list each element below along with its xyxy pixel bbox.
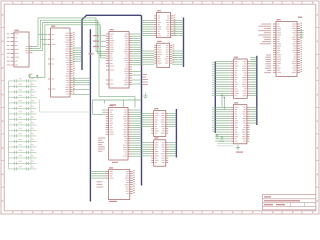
wire U10-U11 link A [221, 95, 223, 108]
IC U5 [106, 167, 135, 199]
vcc arrow 2 [36, 75, 38, 79]
wire vcc feed [30, 25, 45, 78]
wire U1 r1 [29, 34, 38, 46]
wire to U2 pin1 [38, 18, 47, 34]
IC U6 [154, 10, 176, 38]
wires U9 to bus B6 [168, 143, 176, 156]
wires U4 right to bus B2 [131, 110, 142, 156]
wires U3 to bus B2 [132, 34, 142, 84]
net label near bus [89, 53, 94, 54]
IC U9 [151, 137, 168, 166]
wires U2 to bus B1 [73, 48, 91, 94]
IC U8 [151, 108, 168, 137]
wire bus-link H1 [40, 19, 97, 21]
bus B1 (n-shaped data bus top) [82, 15, 142, 185]
resistor-diode array rows [9, 78, 37, 170]
wires bus B2 to U9 [142, 143, 152, 156]
faint wire U2 to bus [39, 100, 90, 113]
U11 bottom label [236, 152, 243, 153]
wires U5 left [90, 172, 106, 179]
wire bus-link V0 [96, 18, 106, 52]
bus B6 (right of U8/U9) [175, 109, 177, 158]
U4 top label [110, 104, 116, 105]
IC U1 [11, 30, 33, 67]
IC U2 [48, 26, 75, 97]
wire to U2 pin2 [40, 20, 47, 39]
ground below U7 [143, 93, 148, 99]
wire to U2 pin3 [43, 23, 48, 45]
wire bus-link V3 [101, 25, 107, 58]
power symbol below bus B4 [216, 134, 224, 142]
wires bus B4 to U11 [215, 107, 231, 141]
wire bus-link H2 [43, 22, 99, 24]
wires U11 to bus B5 [250, 107, 257, 123]
wire bus-link V1 [98, 20, 107, 53]
U5 left net labels [97, 181, 104, 187]
stub wires above U10 right [251, 57, 257, 64]
U4 lower-left net labels [98, 138, 105, 152]
IC U12 [273, 19, 302, 76]
IC U7 [154, 41, 174, 68]
array right rail [30, 81, 32, 169]
wire U10-U11 link B [224, 97, 226, 110]
U12 designator [298, 17, 302, 18]
wires bus B2 to U6 [142, 20, 154, 35]
U7 below net labels [143, 74, 149, 85]
U12 left net labels lower [264, 55, 271, 74]
wire bus-link H0 [38, 17, 96, 19]
U12 right wires [300, 31, 304, 38]
bus B4 (left of U10/U11) [214, 62, 216, 134]
wires U10 to bus B5 [250, 62, 257, 96]
wires bus B2 to U8 [142, 113, 152, 126]
array left rail [8, 81, 10, 169]
title block [263, 195, 316, 210]
bus B3 (right of U6/U7) [183, 18, 185, 68]
stub wires left of bus B4 [212, 63, 215, 132]
IC U11 [231, 102, 250, 143]
U4 bottom label [112, 162, 118, 163]
wires bus B2 to U7 [142, 51, 155, 64]
U12 left net labels [258, 24, 271, 45]
wires bus B4 to U10 [215, 62, 230, 96]
wire U1 r2 [29, 39, 40, 48]
bus B5 (right of U10/U11) [256, 56, 258, 125]
wire below U3 upper [99, 56, 135, 108]
wire U1 r3 [29, 44, 43, 50]
U5 bottom label [109, 201, 117, 202]
bus B1b (address bus vertical) [89, 29, 91, 201]
U3 left net stubs [93, 35, 106, 47]
vcc arrow 1 [28, 74, 32, 79]
wire bus-link H3 [45, 24, 101, 26]
wires U6 to bus B3 [173, 20, 183, 35]
wires U8 to bus B6 [168, 113, 176, 126]
faint wires into U11 bottom [217, 144, 233, 146]
U1 left pin labels [7, 33, 10, 65]
IC U3 [106, 29, 132, 88]
wires U7 to bus B3 [172, 51, 183, 64]
wire below U3 lower [103, 100, 105, 104]
wires U4 left [93, 100, 142, 114]
IC U4 [106, 105, 131, 160]
ground below U11 [236, 145, 240, 150]
IC U10 [231, 57, 250, 99]
wire bus-link V2 [99, 23, 106, 56]
